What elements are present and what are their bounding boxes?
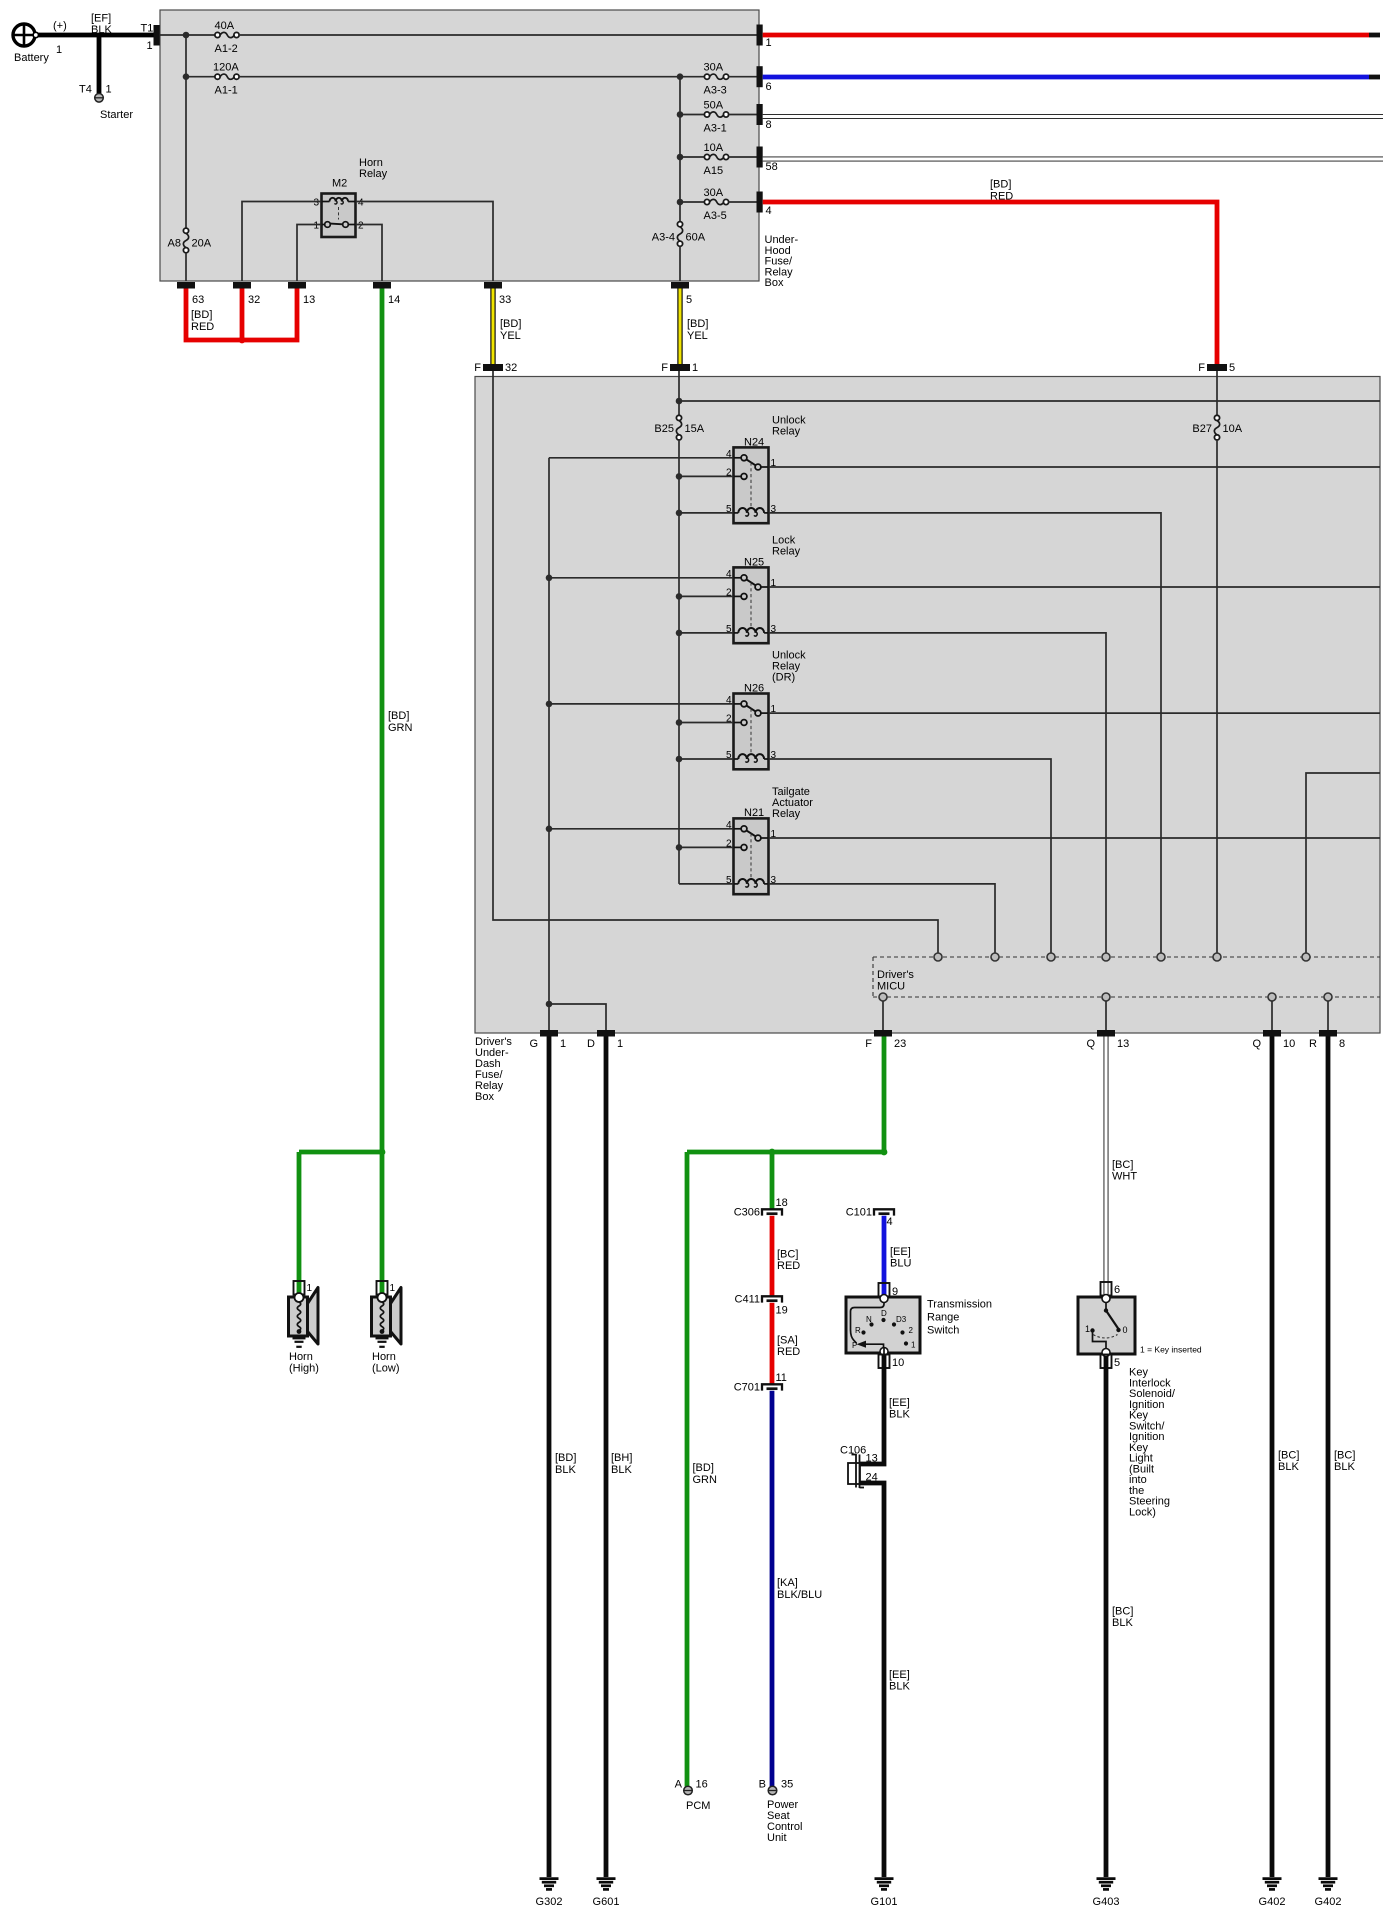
svg-text:Starter: Starter xyxy=(100,109,133,121)
svg-text:63: 63 xyxy=(192,294,204,306)
svg-text:Relay: Relay xyxy=(772,426,801,438)
wire MICU to R8 xyxy=(1327,1001,1329,1030)
svg-text:BLK: BLK xyxy=(91,24,112,36)
junction green at F23 xyxy=(881,1149,888,1156)
junction A3-1 xyxy=(677,111,684,118)
svg-text:R: R xyxy=(855,1326,861,1335)
wire [EE] BLU xyxy=(884,1216,911,1296)
svg-text:F: F xyxy=(1198,362,1205,374)
svg-text:0: 0 xyxy=(1123,1325,1128,1335)
svg-text:2: 2 xyxy=(358,221,364,232)
svg-text:13: 13 xyxy=(303,294,315,306)
svg-text:R: R xyxy=(1309,1038,1317,1050)
wire A15 to terminal 58 xyxy=(729,156,757,158)
svg-text:N24: N24 xyxy=(744,437,764,449)
wire [BD] YEL terminal 33 to F 32 xyxy=(493,289,521,365)
svg-text:A3-3: A3-3 xyxy=(704,85,727,97)
svg-text:A3-1: A3-1 xyxy=(704,123,727,135)
svg-text:PCM: PCM xyxy=(686,1800,710,1812)
svg-text:13: 13 xyxy=(1117,1038,1129,1050)
svg-text:4: 4 xyxy=(358,198,364,209)
svg-text:T4: T4 xyxy=(79,84,92,96)
svg-text:G101: G101 xyxy=(871,1896,898,1908)
svg-text:BLU: BLU xyxy=(890,1258,911,1270)
ground G101 xyxy=(871,1879,898,1908)
svg-text:10A: 10A xyxy=(1223,423,1243,435)
svg-text:10: 10 xyxy=(1283,1038,1295,1050)
driver's under-dash fuse/relay box xyxy=(475,377,1380,1034)
svg-text:[BC]: [BC] xyxy=(1278,1450,1299,1462)
junction N25 pin4 xyxy=(546,575,553,582)
junction 120A branch xyxy=(183,73,190,80)
fuse 120A A1-1 xyxy=(213,62,239,97)
wire N24 pin5 xyxy=(679,512,734,514)
wire G1 trunk xyxy=(548,458,550,1030)
svg-text:1: 1 xyxy=(560,1038,566,1050)
wire 120A to right trunk xyxy=(239,76,704,78)
wire to 30A fuse xyxy=(680,201,704,203)
wire red to right edge xyxy=(763,33,1380,38)
key switch label xyxy=(1129,1367,1176,1519)
wire MICU to Q10 xyxy=(1271,1001,1273,1030)
wire trunk down to A8 fuse xyxy=(185,35,187,228)
svg-text:G403: G403 xyxy=(1093,1896,1120,1908)
wire M2 pin 3 to terminal 32 xyxy=(242,202,322,282)
horn (high) xyxy=(289,1281,319,1375)
svg-text:A1-2: A1-2 xyxy=(215,43,238,55)
svg-text:B: B xyxy=(759,1779,766,1791)
wire [BH] BLK D1 to G601 xyxy=(606,1037,632,1878)
wire green branch horizontal xyxy=(687,1150,884,1155)
wire [EE] BLK pin10 to C106 xyxy=(860,1356,911,1465)
svg-text:N26: N26 xyxy=(744,683,764,695)
svg-text:19: 19 xyxy=(776,1305,788,1317)
wire MICU to F23 xyxy=(882,1001,884,1030)
svg-text:Relay: Relay xyxy=(772,808,801,820)
ground G402 left xyxy=(1259,1879,1286,1908)
svg-text:8: 8 xyxy=(766,119,772,131)
svg-text:T1: T1 xyxy=(141,23,154,35)
wire N26 pin3 to MICU xyxy=(769,759,1052,953)
driver's box label xyxy=(475,1036,512,1103)
svg-text:11: 11 xyxy=(776,1372,787,1384)
wire F 32 into box down and over to MICU xyxy=(493,371,938,953)
connector C306 xyxy=(734,1197,788,1219)
svg-text:[EF]: [EF] xyxy=(91,13,111,25)
fuse B27 10A xyxy=(1192,415,1242,440)
connector D 1 xyxy=(587,1030,623,1050)
svg-text:C411: C411 xyxy=(735,1294,760,1306)
wire F 5 down xyxy=(1216,371,1218,415)
svg-text:GRN: GRN xyxy=(693,1474,718,1486)
svg-text:F: F xyxy=(661,362,668,374)
svg-text:10: 10 xyxy=(892,1357,904,1369)
wire green to C306 xyxy=(770,1152,775,1209)
svg-text:(DR): (DR) xyxy=(772,672,795,684)
svg-text:BLK: BLK xyxy=(1278,1461,1299,1473)
svg-text:G601: G601 xyxy=(593,1896,620,1908)
svg-text:[BC]: [BC] xyxy=(1334,1450,1355,1462)
wire [BC] BLK R8 to G402 xyxy=(1328,1037,1355,1878)
terminal 33 xyxy=(484,282,511,306)
svg-text:[BH]: [BH] xyxy=(611,1452,632,1464)
wire [BD] BLK G1 to G302 xyxy=(549,1037,576,1878)
svg-text:Box: Box xyxy=(765,277,784,289)
wire N26 pin2 xyxy=(679,722,734,724)
under-hood box label xyxy=(765,234,799,289)
svg-text:C701: C701 xyxy=(734,1382,760,1394)
junction F1 bus xyxy=(676,398,683,405)
svg-text:A8: A8 xyxy=(168,238,181,250)
svg-text:[EE]: [EE] xyxy=(890,1246,911,1258)
svg-text:(+): (+) xyxy=(53,20,67,32)
svg-text:C101: C101 xyxy=(846,1207,872,1219)
svg-text:5: 5 xyxy=(686,294,692,306)
svg-text:[BC]: [BC] xyxy=(1112,1159,1133,1171)
fuse 30A A3-5 xyxy=(704,187,729,222)
svg-text:4: 4 xyxy=(887,1216,893,1228)
connector F 32 xyxy=(474,362,517,374)
svg-text:Horn: Horn xyxy=(289,1351,313,1363)
svg-text:120A: 120A xyxy=(213,62,239,74)
terminal 58 right edge xyxy=(757,147,778,174)
svg-text:Unit: Unit xyxy=(767,1832,787,1844)
svg-text:58: 58 xyxy=(766,161,778,173)
svg-text:1: 1 xyxy=(911,1341,916,1350)
key interlock solenoid / ignition key switch xyxy=(1078,1295,1202,1355)
connector T1 xyxy=(141,23,160,53)
wire B25 trunk down to relays xyxy=(678,440,680,884)
svg-text:WHT: WHT xyxy=(1112,1171,1137,1183)
svg-text:F: F xyxy=(474,362,481,374)
junction A15 xyxy=(677,154,684,161)
junction A3-5 xyxy=(677,199,684,206)
wire N26 pin1 xyxy=(769,712,1381,714)
terminal 14 xyxy=(373,282,400,306)
svg-text:[BD]: [BD] xyxy=(500,318,521,330)
MICU terminal row top xyxy=(934,953,1310,961)
wire A3-4 to terminal 5 xyxy=(679,246,681,281)
svg-text:1: 1 xyxy=(106,84,112,96)
svg-text:N25: N25 xyxy=(744,557,764,569)
wire [BD] GRN from terminal 14 xyxy=(382,289,413,1153)
wire N21 pin1 xyxy=(769,837,1381,839)
svg-text:8: 8 xyxy=(1339,1038,1345,1050)
fuse B25 15A xyxy=(654,415,704,440)
wire white from terminal 8 xyxy=(763,114,1383,119)
svg-text:50A: 50A xyxy=(704,100,724,112)
wire [BC] WHT Q13 to key switch xyxy=(1106,1037,1137,1297)
svg-text:1: 1 xyxy=(307,1283,313,1294)
wire N24 pin1 xyxy=(769,466,1381,468)
battery xyxy=(13,24,49,64)
battery positive wire [EF] BLK xyxy=(39,13,155,57)
junction green at C306 branch xyxy=(769,1149,776,1156)
svg-text:MICU: MICU xyxy=(877,981,905,993)
wire N21 pin4 xyxy=(549,828,734,830)
wire N26 pin5 xyxy=(679,758,734,760)
unlock relay (DR) N26 xyxy=(726,650,806,770)
svg-text:13: 13 xyxy=(866,1453,878,1465)
terminal 6 right edge xyxy=(757,66,772,93)
connector Q 10 xyxy=(1252,1030,1295,1050)
svg-text:B27: B27 xyxy=(1192,423,1212,435)
svg-text:Lock): Lock) xyxy=(1129,1506,1156,1518)
terminal 1 right edge xyxy=(757,25,772,50)
svg-text:[BD]: [BD] xyxy=(687,318,708,330)
junction N25 pin5 xyxy=(676,630,683,637)
svg-text:6: 6 xyxy=(766,81,772,93)
svg-text:10A: 10A xyxy=(704,142,724,154)
wire B27 down to MICU xyxy=(1216,440,1218,953)
svg-text:A: A xyxy=(675,1779,683,1791)
svg-text:BLK/BLU: BLK/BLU xyxy=(777,1589,822,1601)
junction main trunk xyxy=(183,32,190,39)
svg-text:1: 1 xyxy=(313,221,319,232)
wire A8 to terminal 63 xyxy=(185,253,187,281)
wire 40A to terminal 1 xyxy=(239,34,756,36)
svg-text:[BD]: [BD] xyxy=(990,179,1011,191)
wire A3-1 to terminal 8 xyxy=(729,114,757,116)
wire white from terminal 58 xyxy=(763,157,1383,162)
wire [BC] RED xyxy=(772,1216,800,1296)
connector C101 xyxy=(846,1207,894,1229)
fuse 50A A3-1 xyxy=(704,100,729,135)
wire green to horn low xyxy=(380,1152,385,1295)
svg-text:Box: Box xyxy=(475,1091,494,1103)
key switch pin 5 xyxy=(1101,1349,1121,1370)
svg-text:RED: RED xyxy=(191,321,214,333)
wire M2 pin 1 to terminal 13 xyxy=(297,225,322,282)
tailgate actuator relay N21 xyxy=(726,786,813,894)
svg-text:Battery: Battery xyxy=(14,52,49,64)
wire green horn branch horizontal xyxy=(299,1150,382,1155)
transmission range switch pin 9 xyxy=(879,1283,899,1298)
wire F 1 trunk down xyxy=(678,371,680,415)
svg-text:G: G xyxy=(529,1038,538,1050)
svg-text:2: 2 xyxy=(909,1326,914,1335)
svg-text:F: F xyxy=(865,1038,872,1050)
wire 120A branch xyxy=(186,76,215,78)
svg-text:BLK: BLK xyxy=(889,1681,910,1693)
svg-text:35: 35 xyxy=(781,1779,793,1791)
terminal 5 xyxy=(671,282,692,306)
svg-text:[BD]: [BD] xyxy=(191,309,212,321)
junction N21 pin4 xyxy=(546,826,553,833)
svg-text:BLK: BLK xyxy=(889,1409,910,1421)
fuse 40A A1-2 xyxy=(215,20,240,55)
svg-text:Relay: Relay xyxy=(772,546,801,558)
connector Q 13 xyxy=(1086,1030,1129,1050)
right trunk vertical xyxy=(679,77,681,222)
key switch pin 6 xyxy=(1101,1282,1121,1296)
svg-text:[BD]: [BD] xyxy=(555,1452,576,1464)
fuse 30A A3-3 xyxy=(704,62,729,97)
svg-text:[KA]: [KA] xyxy=(777,1577,798,1589)
terminal 4 right edge xyxy=(757,192,772,218)
svg-text:M2: M2 xyxy=(332,178,347,190)
connector F 5 xyxy=(1198,362,1235,374)
wire [BD] RED loop terminals 63-32-13 xyxy=(186,289,297,344)
connector R 8 xyxy=(1309,1030,1345,1050)
svg-text:[SA]: [SA] xyxy=(777,1335,798,1347)
svg-text:[BC]: [BC] xyxy=(1112,1606,1133,1618)
wire D1 branch xyxy=(549,1004,606,1030)
wire to 10A fuse xyxy=(680,156,704,158)
wire [BD] GRN to PCM xyxy=(687,1152,717,1787)
wire [BD] YEL terminal 5 to F 1 xyxy=(680,289,708,365)
wire N25 pin4 xyxy=(549,577,734,579)
wire N21 pin3 to MICU xyxy=(769,884,996,953)
svg-text:D3: D3 xyxy=(896,1315,907,1324)
junction N24 pin2 xyxy=(676,473,683,480)
wire N25 pin5 xyxy=(679,632,734,634)
svg-text:1: 1 xyxy=(617,1038,623,1050)
fuse A3-4 60A xyxy=(652,222,706,247)
svg-text:[EE]: [EE] xyxy=(889,1397,910,1409)
terminal B 35 power seat control unit xyxy=(759,1779,803,1845)
wire [BC] BLK key switch to G403 xyxy=(1106,1356,1133,1877)
junction N26 pin2 xyxy=(676,719,683,726)
svg-text:33: 33 xyxy=(499,294,511,306)
junction N24 pin5 xyxy=(676,510,683,517)
junction N21 pin2 xyxy=(676,844,683,851)
connector C701 xyxy=(734,1372,787,1394)
svg-text:1: 1 xyxy=(692,362,698,374)
connector C411 xyxy=(735,1294,788,1317)
terminal 13 xyxy=(288,282,315,306)
ground G302 xyxy=(536,1879,563,1908)
wire N25 pin2 xyxy=(679,595,734,597)
svg-text:[BD]: [BD] xyxy=(388,710,409,722)
svg-text:[BC]: [BC] xyxy=(777,1249,798,1261)
svg-text:Range: Range xyxy=(927,1312,959,1324)
svg-text:G302: G302 xyxy=(536,1896,563,1908)
terminal 63 xyxy=(177,282,204,306)
wire N21 pin2 xyxy=(679,846,734,848)
svg-text:D: D xyxy=(881,1309,887,1318)
svg-text:A3-4: A3-4 xyxy=(652,232,675,244)
connector G 1 xyxy=(529,1030,566,1050)
svg-text:1: 1 xyxy=(56,44,62,56)
wire N21 pin5 xyxy=(679,883,734,885)
svg-text:Q: Q xyxy=(1086,1038,1095,1050)
wire [BC] BLK Q10 to G402 xyxy=(1272,1037,1299,1878)
svg-text:YEL: YEL xyxy=(500,330,521,342)
wire bus top horizontal xyxy=(679,400,1380,402)
wire N25 pin1 xyxy=(769,586,1381,588)
fuse A8 20A xyxy=(168,228,212,253)
svg-text:1: 1 xyxy=(766,37,772,49)
svg-text:A15: A15 xyxy=(704,165,724,177)
connector F 1 xyxy=(661,362,698,374)
svg-text:Driver's: Driver's xyxy=(877,969,914,981)
wire A3-5 to terminal 4 xyxy=(729,201,757,203)
horn relay M2 xyxy=(313,157,387,237)
svg-text:(High): (High) xyxy=(289,1363,319,1375)
wire to starter xyxy=(79,33,112,96)
wire N26 pin4 xyxy=(549,703,734,705)
svg-text:C106: C106 xyxy=(840,1445,866,1457)
svg-text:5: 5 xyxy=(1114,1357,1120,1369)
wire blue to right edge xyxy=(763,75,1380,80)
svg-text:1: 1 xyxy=(390,1283,396,1294)
svg-text:N: N xyxy=(866,1315,872,1324)
lock relay N25 xyxy=(726,535,801,644)
svg-text:15A: 15A xyxy=(685,423,705,435)
svg-text:A3-5: A3-5 xyxy=(704,210,727,222)
wire M2 pin 4 to terminal 33 xyxy=(356,202,494,282)
svg-text:32: 32 xyxy=(248,294,260,306)
svg-text:BLK: BLK xyxy=(555,1464,576,1476)
svg-text:G402: G402 xyxy=(1259,1896,1286,1908)
svg-text:4: 4 xyxy=(766,205,772,217)
ground G601 xyxy=(593,1879,620,1908)
svg-text:1 = Key inserted: 1 = Key inserted xyxy=(1140,1345,1202,1355)
terminal 8 right edge xyxy=(757,104,772,131)
svg-text:30A: 30A xyxy=(704,62,724,74)
junction A3-3 xyxy=(677,73,684,80)
wire green F23 down xyxy=(882,1037,887,1153)
svg-text:60A: 60A xyxy=(686,232,706,244)
starter terminal xyxy=(95,94,134,122)
svg-text:5: 5 xyxy=(1229,362,1235,374)
svg-text:B25: B25 xyxy=(654,423,674,435)
MICU terminal row bottom xyxy=(879,993,1332,1001)
wire [SA] RED xyxy=(772,1303,800,1384)
svg-text:BLK: BLK xyxy=(611,1464,632,1476)
svg-text:Q: Q xyxy=(1252,1038,1261,1050)
svg-text:BLK: BLK xyxy=(1334,1461,1355,1473)
fuse 10A A15 xyxy=(704,142,729,177)
svg-text:G402: G402 xyxy=(1315,1896,1342,1908)
unlock relay N24 xyxy=(726,415,806,524)
svg-text:GRN: GRN xyxy=(388,722,413,734)
svg-text:D: D xyxy=(587,1038,595,1050)
svg-text:3: 3 xyxy=(313,198,319,209)
svg-text:BLK: BLK xyxy=(1112,1617,1133,1629)
wire [EE] BLK C106 to G101 xyxy=(860,1483,911,1877)
wire [KA] BLK/BLU to power seat control unit xyxy=(772,1391,822,1787)
wire [BD] RED terminal 4 to F 5 xyxy=(763,179,1217,365)
terminal A 16 PCM xyxy=(675,1779,711,1813)
svg-text:1: 1 xyxy=(147,40,153,52)
wire N25 pin3 to MICU xyxy=(769,633,1107,953)
driver's MICU dashed outline xyxy=(873,957,1380,997)
svg-text:30A: 30A xyxy=(704,187,724,199)
ground G402 right xyxy=(1315,1879,1342,1908)
junction N26 pin4 xyxy=(546,701,553,708)
junction green horn branch xyxy=(379,1149,386,1156)
svg-text:YEL: YEL xyxy=(687,330,708,342)
svg-text:Transmission: Transmission xyxy=(927,1299,992,1311)
connector C106 xyxy=(840,1445,878,1489)
wire A3-3 to terminal 6 xyxy=(729,76,757,78)
wire N24 pin4 xyxy=(549,457,734,459)
svg-text:23: 23 xyxy=(894,1038,906,1050)
svg-text:C306: C306 xyxy=(734,1207,760,1219)
svg-text:Horn: Horn xyxy=(372,1351,396,1363)
svg-text:6: 6 xyxy=(1114,1284,1120,1296)
svg-text:14: 14 xyxy=(388,294,400,306)
svg-text:RED: RED xyxy=(777,1346,800,1358)
svg-text:Relay: Relay xyxy=(359,168,388,180)
junction N25 pin2 xyxy=(676,593,683,600)
svg-text:Switch: Switch xyxy=(927,1325,959,1337)
svg-text:40A: 40A xyxy=(215,20,235,32)
under-hood fuse/relay box xyxy=(160,10,759,281)
wire N24 pin3 to MICU xyxy=(769,513,1162,953)
